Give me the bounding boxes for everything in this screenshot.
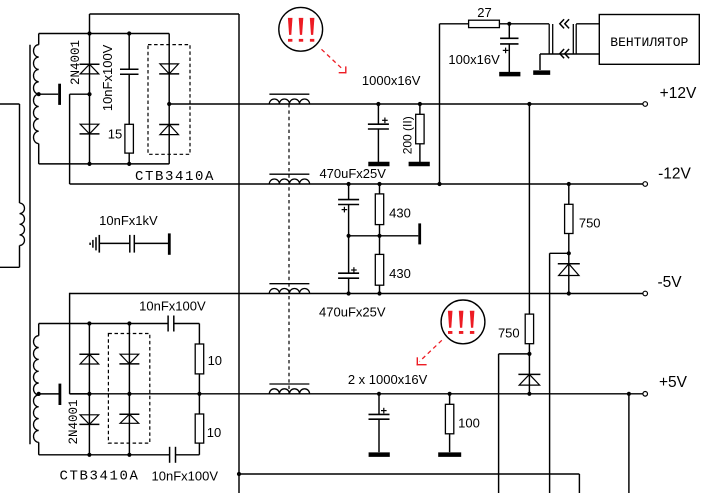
svg-text:430: 430 [389, 206, 411, 221]
svg-text:750: 750 [579, 216, 601, 231]
svg-text:100: 100 [458, 416, 480, 431]
svg-text:ВЕНТИЛЯТОР: ВЕНТИЛЯТОР [610, 35, 688, 50]
svg-text:-12V: -12V [658, 165, 691, 182]
svg-text:-5V: -5V [657, 274, 682, 291]
svg-text:2N4001: 2N4001 [69, 40, 83, 85]
svg-text:+5V: +5V [659, 374, 688, 391]
svg-text:10: 10 [208, 353, 222, 368]
svg-text:10: 10 [207, 425, 221, 440]
svg-text:750: 750 [498, 326, 520, 341]
svg-text:CTB3410A: CTB3410A [135, 169, 215, 185]
svg-text:27: 27 [477, 5, 491, 20]
svg-text:430: 430 [389, 266, 411, 281]
svg-text:2N4001: 2N4001 [67, 399, 81, 444]
svg-text:10nFx100V: 10nFx100V [139, 298, 206, 313]
svg-text:CTB3410A: CTB3410A [59, 468, 139, 484]
svg-text:470uFx25V: 470uFx25V [319, 305, 386, 320]
svg-text:100x16V: 100x16V [448, 52, 500, 67]
svg-text:15: 15 [108, 127, 122, 142]
svg-text:10nFx1kV: 10nFx1kV [99, 213, 158, 228]
svg-text:+12V: +12V [660, 85, 697, 102]
svg-text:470uFx25V: 470uFx25V [319, 166, 386, 181]
svg-text:2 x 1000x16V: 2 x 1000x16V [348, 372, 428, 387]
svg-text:10nFx100V: 10nFx100V [100, 44, 115, 111]
svg-text:200 (II): 200 (II) [400, 116, 414, 154]
svg-text:10nFx100V: 10nFx100V [152, 469, 219, 484]
svg-text:1000x16V: 1000x16V [362, 73, 421, 88]
